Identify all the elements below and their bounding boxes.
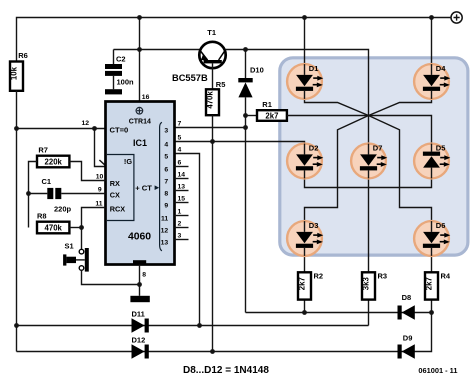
svg-text:CT=0: CT=0 xyxy=(110,125,129,134)
svg-text:16: 16 xyxy=(142,94,150,101)
wire: T1 base down to R5 xyxy=(212,63,214,89)
svg-text:D11: D11 xyxy=(132,310,145,319)
svg-text:12: 12 xyxy=(161,227,169,234)
wire: D4 feeder from top rail xyxy=(431,18,433,66)
LED D5 xyxy=(414,143,450,178)
svg-text:R4: R4 xyxy=(441,272,451,281)
wire: y=50 horizontal from C2 to T1 emitter xyxy=(114,49,200,51)
node: top rail junction D4 xyxy=(429,15,434,20)
svg-text:4: 4 xyxy=(164,141,168,148)
wire: R1 to D5 (X horizontal) xyxy=(287,116,432,152)
node: junction pin4 line / D11 line xyxy=(197,323,202,328)
svg-text:+ CT: + CT xyxy=(135,183,152,192)
wire: D12 row xyxy=(17,313,432,352)
resistor R6 10k xyxy=(10,51,28,91)
resistor R4 2k7 xyxy=(425,272,451,313)
svg-text:3: 3 xyxy=(178,233,182,240)
LED D6 xyxy=(414,221,450,256)
wire: D2 cathode to D5 bottom xyxy=(305,168,432,188)
svg-text:8: 8 xyxy=(164,190,168,197)
wire: left rail below R6 xyxy=(16,91,18,352)
svg-text:2k7: 2k7 xyxy=(425,277,434,290)
svg-text:3: 3 xyxy=(164,127,168,134)
svg-text:CTR14: CTR14 xyxy=(129,118,151,125)
ground symbol xyxy=(130,296,149,302)
svg-text:15: 15 xyxy=(178,196,186,203)
diode D12 xyxy=(132,335,149,359)
wire: pin7 horizontal xyxy=(175,127,246,129)
wire: X diagonal down-right to D6 xyxy=(369,116,432,222)
node: junction R4 bottom xyxy=(429,310,434,315)
svg-text:D1: D1 xyxy=(309,64,319,73)
IC1 right side pin stubs and numbers xyxy=(161,121,189,247)
svg-text:4060: 4060 xyxy=(128,232,151,243)
svg-text:C1: C1 xyxy=(42,177,52,186)
node: top rail junction x=139.5 xyxy=(137,15,142,20)
svg-text:RCX: RCX xyxy=(110,204,126,213)
svg-text:13: 13 xyxy=(161,239,169,246)
svg-text:2k7: 2k7 xyxy=(265,111,278,120)
ground bar under C2 xyxy=(105,89,122,94)
svg-text:R6: R6 xyxy=(18,51,28,60)
node: junction R5 line / pin5 wire xyxy=(210,139,215,144)
wire: R7 right to pin10 xyxy=(69,162,105,181)
resistor R5 470k xyxy=(206,80,226,115)
svg-text:5: 5 xyxy=(164,153,168,160)
svg-text:R8: R8 xyxy=(37,211,47,220)
svg-text:061001 - 11: 061001 - 11 xyxy=(418,366,457,375)
svg-text:R1: R1 xyxy=(262,100,272,109)
wire: X diagonal down-left to D3 xyxy=(305,116,369,222)
node: junction pin12 / !G branch xyxy=(92,126,97,131)
svg-text:C2: C2 xyxy=(116,55,126,64)
svg-text:12: 12 xyxy=(81,120,89,127)
svg-text:D3: D3 xyxy=(309,221,319,230)
resistor R2 2k7 xyxy=(298,272,324,313)
node: junction C1 / local rail xyxy=(26,191,31,196)
svg-text:5: 5 xyxy=(178,135,182,142)
node: junction y50 x=245.5 (D10 branch) xyxy=(243,47,248,52)
LED D7 xyxy=(351,143,387,178)
svg-text:CX: CX xyxy=(110,191,120,200)
svg-text:7: 7 xyxy=(178,121,182,128)
node: junction y50 x=139.5 xyxy=(137,47,142,52)
capacitor C2 100n xyxy=(105,50,134,90)
diode D8 xyxy=(398,293,415,320)
svg-text:11: 11 xyxy=(161,215,168,222)
svg-text:R5: R5 xyxy=(216,80,226,89)
LED D2 xyxy=(287,143,323,178)
node: junction left rail / pin12 xyxy=(14,126,19,131)
wire: pin4 route to D11 line xyxy=(175,154,200,326)
svg-text:470k: 470k xyxy=(45,223,63,232)
node: junction x245.5 / pin7 wire xyxy=(243,125,248,130)
svg-text:S1: S1 xyxy=(65,242,74,251)
LED D1 xyxy=(287,64,323,99)
svg-text:6: 6 xyxy=(164,166,168,173)
LED group frame (blue rounded box) xyxy=(280,58,468,255)
svg-text:100n: 100n xyxy=(117,78,135,87)
wire: IC pin8 down xyxy=(139,265,141,296)
svg-text:D4: D4 xyxy=(436,64,446,73)
wire: D11 row xyxy=(17,325,369,327)
wire: IC pin16 vertical from top rail xyxy=(139,18,141,102)
svg-text:220p: 220p xyxy=(54,204,72,213)
svg-text:IC1: IC1 xyxy=(133,138,147,148)
svg-text:10k: 10k xyxy=(10,66,19,80)
wire: D7 cathode down to R3 xyxy=(368,170,370,272)
LED D3 xyxy=(287,221,323,256)
svg-text:D9: D9 xyxy=(403,334,413,343)
diode D10 xyxy=(238,50,263,116)
wire: branch to !G input with edge wedge xyxy=(95,129,107,167)
wire: pin5 horizontal to D2 xyxy=(175,142,305,144)
svg-text:9: 9 xyxy=(164,202,168,209)
node: junction x245.5 / R1 row xyxy=(243,113,248,118)
svg-text:D5: D5 xyxy=(436,143,446,152)
svg-text:9: 9 xyxy=(98,187,102,194)
resistor R1 2k7 xyxy=(246,100,287,121)
node: top rail junction D1 xyxy=(302,15,307,20)
svg-text:D10: D10 xyxy=(250,66,264,75)
svg-text:T1: T1 xyxy=(207,28,216,37)
diode D11 xyxy=(132,310,149,333)
node: junction R2 bottom xyxy=(302,310,307,315)
svg-text:R3: R3 xyxy=(378,272,388,281)
node: junction R8 / S1 xyxy=(79,225,84,230)
svg-text:D12: D12 xyxy=(132,335,146,344)
node: ground junction xyxy=(137,282,142,287)
svg-text:2k7: 2k7 xyxy=(298,277,307,290)
svg-text:2: 2 xyxy=(178,221,182,228)
transistor T1 BC557B xyxy=(172,28,226,83)
wire: pin11 route xyxy=(82,208,106,250)
wire: R2/D8 row xyxy=(246,312,432,314)
resistor R8 470k xyxy=(37,211,69,233)
svg-text:10: 10 xyxy=(96,174,104,181)
wire: D3 cathode down to R2 xyxy=(304,248,306,272)
wire: D1 feeder from top rail xyxy=(304,18,306,66)
wire: R7 left to local rail xyxy=(29,162,38,228)
node: junction R5 line / D12 line xyxy=(210,349,215,354)
wire: S1 bottom to ground node xyxy=(82,270,140,284)
svg-text:D8: D8 xyxy=(402,293,412,302)
svg-text:14: 14 xyxy=(178,172,186,179)
svg-text:220k: 220k xyxy=(45,157,63,166)
wire: R5 bottom long vertical to D12 line xyxy=(212,115,214,351)
svg-text:D7: D7 xyxy=(373,143,383,152)
svg-text:8: 8 xyxy=(142,272,146,279)
svg-text:13: 13 xyxy=(178,184,186,191)
LED D4 xyxy=(414,64,450,99)
svg-text:R2: R2 xyxy=(314,272,324,281)
wire: R1 net vertical x=245.5 xyxy=(245,116,247,313)
svg-text:3k3: 3k3 xyxy=(362,277,371,291)
capacitor C1 220p xyxy=(29,177,106,213)
svg-text:1: 1 xyxy=(178,209,182,216)
svg-text:11: 11 xyxy=(95,201,102,208)
IC1 4060 body xyxy=(106,102,175,265)
node: junction left rail / D11 row xyxy=(14,323,19,328)
svg-text:RX: RX xyxy=(110,179,120,188)
svg-text:4: 4 xyxy=(178,147,182,154)
wire: D4 cathode to X crossing xyxy=(369,91,432,116)
wire: T1 collector to D7 column xyxy=(226,50,369,144)
supply + terminal xyxy=(451,12,462,23)
resistor R3 3k3 xyxy=(362,272,388,326)
wire: D1 cathode to X crossing xyxy=(305,91,369,116)
diode D9 xyxy=(398,334,415,359)
svg-text:BC557B: BC557B xyxy=(172,73,208,83)
svg-text:D6: D6 xyxy=(436,221,446,230)
svg-text:7: 7 xyxy=(164,178,168,185)
svg-text:!G: !G xyxy=(124,157,132,166)
svg-text:R7: R7 xyxy=(38,146,48,155)
svg-text:470k: 470k xyxy=(206,91,215,109)
resistor R7 220k xyxy=(37,146,69,168)
wire: R8 right to junction xyxy=(69,227,81,229)
wire: pin12 horizontal xyxy=(17,128,106,130)
svg-text:D8...D12 = 1N4148: D8...D12 = 1N4148 xyxy=(183,365,269,376)
wire: D6 cathode down to R4 xyxy=(431,248,433,272)
wire: top supply rail xyxy=(17,18,451,62)
pushbutton S1 xyxy=(63,242,89,272)
svg-text:6: 6 xyxy=(178,160,182,167)
svg-text:D2: D2 xyxy=(309,143,319,152)
